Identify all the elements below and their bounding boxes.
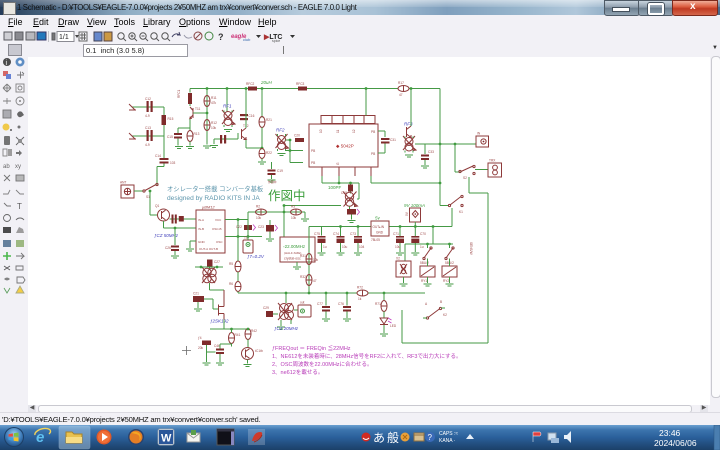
svg-text:OUT▸IN: OUT▸IN <box>373 225 385 229</box>
ground under R13 <box>186 147 194 149</box>
power connector J2 <box>405 208 421 227</box>
svg-text:R6: R6 <box>229 282 233 286</box>
svg-text:C13: C13 <box>145 126 151 130</box>
svg-text:C75: C75 <box>314 232 320 236</box>
svg-text:3、ne612を載せる。: 3、ne612を載せる。 <box>272 368 323 376</box>
red app <box>248 429 265 445</box>
wire: input stub upper <box>132 106 164 108</box>
capacitor C18 100PF <box>328 183 353 195</box>
inductor RFC1 (vertical from rail) <box>177 89 192 107</box>
wire: strip feed from rail <box>365 89 367 116</box>
wire: IC gnd pin <box>190 241 196 248</box>
junction bottom rail <box>308 292 311 295</box>
svg-text:C76: C76 <box>338 302 344 306</box>
svg-text:OSC-B: OSC-B <box>212 227 222 231</box>
wire: VCC top rail <box>190 88 440 90</box>
wire: IC right pin upper <box>378 131 385 137</box>
capacitor C25 <box>179 216 184 222</box>
wire: ANT pin <box>134 190 143 192</box>
svg-text:10k: 10k <box>313 258 319 262</box>
trimmer inductor L3 (oscillator tank) <box>343 192 358 210</box>
switch K1 <box>440 195 463 226</box>
svg-text:Q1: Q1 <box>155 204 159 208</box>
capacitor C21 <box>193 292 218 312</box>
svg-text:VCC: VCC <box>215 218 222 222</box>
resistor R15 <box>162 115 174 125</box>
wire: osc net R2/R3 <box>248 206 341 241</box>
capacitor C14 (series in vertical) <box>155 154 176 185</box>
svg-text:47k: 47k <box>211 101 217 105</box>
svg-text:C29: C29 <box>263 306 269 310</box>
wire: IC right pin lower <box>378 149 385 154</box>
svg-text:S2: S2 <box>463 176 467 180</box>
ground (antenna stub lower) <box>129 133 136 139</box>
firefox <box>128 429 144 445</box>
svg-text:spice: spice <box>272 39 280 43</box>
svg-text:C74: C74 <box>333 232 339 236</box>
svg-text:103: 103 <box>170 161 176 165</box>
svg-text:11: 11 <box>336 129 340 133</box>
svg-text:1u: 1u <box>420 245 424 249</box>
svg-text:IN-A: IN-A <box>198 218 204 222</box>
ground IC <box>186 249 194 251</box>
wire: IC bottom pins <box>322 167 371 176</box>
wire: rail corner down (right) <box>439 89 441 206</box>
svg-text:(HALF-SIZE): (HALF-SIZE) <box>284 251 301 255</box>
capacitor C77 <box>317 292 330 321</box>
mail <box>187 430 200 442</box>
resistor R41 <box>229 328 241 347</box>
svg-text:5v: 5v <box>375 216 381 221</box>
capacitor C16 (RF1 parallel) <box>240 114 255 120</box>
junction tank dots <box>200 266 203 269</box>
svg-text:C15: C15 <box>167 135 173 139</box>
capacitor C70 <box>411 225 426 255</box>
wire: T15 collector to rail <box>410 89 412 127</box>
capacitor C71 <box>393 225 404 255</box>
svg-text:crystal-osc: crystal-osc <box>284 257 301 261</box>
junction VCC net dots <box>237 218 240 221</box>
inductor RFC2 <box>246 82 257 91</box>
junction T12 collector <box>245 87 248 90</box>
svg-text:R13: R13 <box>194 132 200 136</box>
svg-text:R11: R11 <box>211 96 217 100</box>
LED D1 <box>380 318 397 336</box>
junction dots <box>206 112 209 115</box>
svg-text:GND: GND <box>198 240 206 244</box>
connector ANT <box>120 181 134 199</box>
svg-text:GND: GND <box>376 231 384 235</box>
capacitor C17b (base coupling) <box>210 133 238 148</box>
switch K2 <box>423 300 447 319</box>
svg-text:作図中: 作図中 <box>268 188 306 203</box>
transistor Q3 <box>242 348 264 367</box>
wire: Q1 bottom to IN-B <box>164 221 197 228</box>
svg-text:IN: IN <box>477 132 481 136</box>
ground under RF2 <box>278 154 286 156</box>
svg-text:C73: C73 <box>350 232 356 236</box>
transistor T12 <box>242 124 249 140</box>
ground (antenna stub upper) <box>129 104 136 110</box>
capacitor C20 (mixer input) <box>294 134 304 143</box>
ground under R22 <box>258 162 266 164</box>
toolbars <box>0 29 720 44</box>
resistor R72 (series) <box>357 286 368 302</box>
wire: tank top <box>195 267 224 290</box>
svg-text:RF3: RF3 <box>404 122 413 127</box>
svg-text:R12: R12 <box>211 121 217 125</box>
switch S1 <box>143 183 158 199</box>
svg-text:RF1: RF1 <box>223 104 232 109</box>
svg-text:R31: R31 <box>300 254 306 258</box>
trimmer transformer RF1 <box>222 104 235 128</box>
svg-text:SENS/W: SENS/W <box>469 242 473 255</box>
pin header strip J1 <box>321 116 375 124</box>
capacitor C15 (emitter bypass) <box>167 133 182 146</box>
wire: crystal gnd <box>296 262 298 266</box>
svg-text:R3: R3 <box>291 205 295 209</box>
wire: loop top <box>469 177 488 193</box>
capacitor C29 <box>263 306 278 317</box>
svg-text:LED: LED <box>390 324 397 328</box>
connector TRX <box>488 159 502 178</box>
wire: T11 base to divider <box>193 112 207 114</box>
svg-text:9V 100mA: 9V 100mA <box>404 203 425 208</box>
capacitor C12 <box>145 97 153 118</box>
svg-text:あ: あ <box>373 431 385 445</box>
svg-text:TRX: TRX <box>489 159 496 163</box>
IC U1 (mixer NE612) <box>196 205 225 254</box>
svg-text:xy: xy <box>15 164 21 170</box>
folder <box>66 432 82 443</box>
wire: input stub lower <box>132 135 164 137</box>
svg-text:RF2: RF2 <box>276 128 285 133</box>
ground under R19 <box>348 221 356 223</box>
svg-text:IN-B: IN-B <box>198 227 204 231</box>
svg-text:PB: PB <box>371 152 375 156</box>
svg-text:23:46: 23:46 <box>659 428 681 438</box>
svg-text:R22: R22 <box>266 151 272 155</box>
wire: RF2 to mixer <box>286 140 304 163</box>
active window highlight cell <box>59 426 90 449</box>
trimmer transformer L4 <box>403 136 416 153</box>
crystal oscillator module X1 <box>280 237 315 262</box>
svg-text:R17: R17 <box>398 81 404 85</box>
wire: stage2 feed vertical <box>226 89 228 112</box>
start orb <box>4 427 24 447</box>
potentiometer R19 <box>347 209 360 220</box>
svg-text:club: club <box>243 37 251 42</box>
svg-text:CAPS :≈: CAPS :≈ <box>439 431 458 437</box>
wire: T12 collector to rail <box>245 89 247 129</box>
output transformer L5 <box>277 292 298 329</box>
junction osc line <box>338 182 341 185</box>
capacitor C22 (electrolytic) <box>236 220 256 241</box>
svg-text:4-9: 4-9 <box>145 143 150 147</box>
junction strip feed <box>365 87 368 90</box>
svg-text:般: 般 <box>387 430 399 445</box>
transistor T15 <box>404 122 413 138</box>
svg-text:1u: 1u <box>323 245 327 249</box>
svg-text:ƒ7=0.2V: ƒ7=0.2V <box>247 254 265 259</box>
svg-text:R71: R71 <box>375 302 381 306</box>
svg-text:10: 10 <box>319 129 323 133</box>
svg-text:K1: K1 <box>459 210 463 214</box>
svg-text:R5: R5 <box>229 262 233 266</box>
switch S3 <box>420 247 432 265</box>
switch S4 <box>445 247 454 265</box>
ground under L4 <box>405 155 413 157</box>
svg-text:G: G <box>336 162 340 165</box>
resistor R2 <box>256 205 267 221</box>
junction IN-B net <box>174 227 177 230</box>
svg-text:ab: ab <box>3 164 10 170</box>
JFET oscillator transformer L6 <box>202 267 216 283</box>
switch S2 (TRX select) <box>455 144 488 180</box>
junction output line <box>439 143 442 146</box>
wire: oscillator collector line <box>322 176 359 199</box>
svg-text:C71: C71 <box>393 232 399 236</box>
junction relay feed dots <box>432 225 435 228</box>
svg-text:オシレーター搭載 コンバータ基板: オシレーター搭載 コンバータ基板 <box>167 184 264 193</box>
JFET Q2 2SK192 <box>210 290 229 324</box>
svg-text:PB: PB <box>311 161 315 165</box>
svg-text:4-9: 4-9 <box>145 114 150 118</box>
svg-text:C21: C21 <box>193 292 199 296</box>
svg-text:?: ? <box>218 32 224 42</box>
svg-text:C70: C70 <box>420 232 426 236</box>
svg-text:9V: 9V <box>405 211 409 216</box>
wire: filter vertical <box>163 107 165 158</box>
svg-text:C77: C77 <box>317 302 323 306</box>
wire: pin4 line to switch K1 <box>371 176 440 183</box>
capacitor C24 <box>172 215 177 224</box>
svg-text:R72: R72 <box>357 286 363 290</box>
tray icons <box>362 433 371 442</box>
test point TP7 <box>243 236 253 253</box>
svg-text:1k: 1k <box>358 297 362 301</box>
svg-text:RFC1: RFC1 <box>177 89 181 98</box>
svg-text:2024/06/06: 2024/06/06 <box>654 438 697 448</box>
svg-text:12: 12 <box>352 129 356 133</box>
wire: outer loop <box>402 193 488 343</box>
svg-text:R2: R2 <box>256 205 260 209</box>
svg-text:C4b: C4b <box>214 344 220 348</box>
resistor R71 + LED D1 <box>375 292 387 318</box>
capacitor C33 <box>421 144 434 168</box>
capacitor C13 <box>145 126 153 147</box>
svg-text:R21: R21 <box>266 118 272 122</box>
capacitor C75 <box>314 227 327 256</box>
resistor divider chain (TP branch) <box>229 237 241 282</box>
relay RY2 <box>442 259 457 287</box>
svg-text:◦22.00MHz: ◦22.00MHz <box>283 244 306 249</box>
svg-text:RY2: RY2 <box>443 279 449 283</box>
svg-text:ƒCZ 20MHz: ƒCZ 20MHz <box>274 326 299 331</box>
connector IN <box>476 132 489 148</box>
op-amp/mixer IC U2 5042P <box>309 124 378 167</box>
svg-text:78L05: 78L05 <box>371 238 380 242</box>
svg-text:PB: PB <box>311 149 315 153</box>
capacitor C31 <box>381 138 396 149</box>
svg-text:100PF: 100PF <box>328 185 342 190</box>
svg-text:C23: C23 <box>258 225 264 229</box>
junction T15 collector <box>410 87 413 90</box>
wire: Q1 out to mixer <box>170 218 197 220</box>
svg-text:10u: 10u <box>395 245 401 249</box>
svg-text:20k: 20k <box>198 346 204 350</box>
svg-text:10k: 10k <box>211 126 217 130</box>
transistor Q1 (local osc) <box>155 204 170 221</box>
capacitor C27 (tank) <box>207 260 220 267</box>
wire: T12 emitter node <box>246 140 262 148</box>
svg-text:◆ 5042P: ◆ 5042P <box>336 144 354 149</box>
junction dots on VCC rail <box>226 87 229 90</box>
wire: output line to IN jack <box>415 143 476 145</box>
svg-text:R41: R41 <box>235 333 241 337</box>
capacitor C74 <box>333 225 348 255</box>
origin cross <box>182 346 191 355</box>
resistor R17 (series in rail) <box>398 81 409 97</box>
resistor R22 (emitter) <box>259 149 272 162</box>
svg-text:R42: R42 <box>251 329 257 333</box>
svg-text:C14: C14 <box>155 154 161 158</box>
svg-text:20uH: 20uH <box>260 80 273 85</box>
svg-text:ƒFREQout ＝ FREQin ≦22MHz: ƒFREQout ＝ FREQin ≦22MHz <box>272 344 351 352</box>
media player <box>97 430 112 445</box>
wire: T11 emitter branch <box>178 89 207 145</box>
svg-text:1、NE612を未装着時に、28MHz信号をRF2に入れて、: 1、NE612を未装着時に、28MHz信号をRF2に入れて、RF3で出力大にする… <box>272 352 462 360</box>
svg-text:X2: X2 <box>396 257 400 261</box>
wire: left feed vertical <box>308 227 310 294</box>
svg-text:KANA ·: KANA · <box>439 438 456 444</box>
ground under R12 <box>203 146 211 148</box>
capacitor C23 (electrolytic) <box>258 220 278 241</box>
svg-text:C31: C31 <box>390 138 396 142</box>
resistor R32 <box>300 275 317 286</box>
junction mixer input <box>289 139 292 142</box>
svg-text:?: ? <box>428 433 433 442</box>
svg-text:μBM12: μBM12 <box>201 205 215 210</box>
scrollbars <box>710 44 720 405</box>
connector OUT <box>298 301 311 318</box>
svg-text:C12: C12 <box>145 97 151 101</box>
svg-text:C16: C16 <box>249 114 255 118</box>
taskbar <box>0 425 720 450</box>
svg-text:W: W <box>161 433 172 445</box>
capacitor C4b <box>214 344 232 365</box>
left tool palette <box>0 57 29 405</box>
svg-text:PB: PB <box>371 130 375 134</box>
svg-text:ANT: ANT <box>120 181 126 185</box>
capacitor C76 <box>338 292 351 321</box>
svg-text:RY1: RY1 <box>421 279 427 283</box>
resistor R4 <box>198 336 216 365</box>
wire: source node <box>210 320 248 330</box>
svg-text:C26: C26 <box>165 246 171 250</box>
svg-text:C22: C22 <box>236 225 242 229</box>
IE <box>34 428 50 446</box>
ground under RF1 <box>224 130 232 132</box>
capacitor C26 <box>165 228 179 258</box>
transistor T11 <box>190 107 200 119</box>
canvas <box>28 57 710 405</box>
menu bar <box>0 15 720 30</box>
svg-text:A: A <box>425 302 428 306</box>
capacitor C73 <box>350 225 365 255</box>
wire: bottom rail <box>238 292 425 294</box>
word <box>158 429 174 445</box>
relay RY1 <box>420 259 435 287</box>
resistor R11 <box>204 96 217 107</box>
svg-text:out: out <box>300 301 305 305</box>
svg-text:T11: T11 <box>195 107 200 111</box>
status bar <box>0 412 720 426</box>
resistor R13 (emitter) <box>187 131 200 146</box>
svg-text:RFC2: RFC2 <box>246 82 255 86</box>
svg-text:104: 104 <box>359 245 365 249</box>
wire: 5V rail <box>309 226 452 228</box>
svg-text:47: 47 <box>399 93 403 97</box>
svg-text:R32: R32 <box>300 275 306 279</box>
svg-text:C20: C20 <box>294 134 300 138</box>
resistor R31 <box>300 254 319 265</box>
svg-text:K2: K2 <box>443 313 447 317</box>
resistor R42 <box>245 328 257 348</box>
junction osc net <box>283 211 286 214</box>
resistor R3 <box>291 205 302 221</box>
voltage regulator IC3 <box>371 216 389 243</box>
svg-text:ℓC1ℓb: ℓC1ℓb <box>255 349 263 353</box>
svg-text:B: B <box>440 300 442 304</box>
trimmer transformer RF2 <box>276 128 289 152</box>
svg-text:designed by RADIO KITS IN JA: designed by RADIO KITS IN JA <box>167 195 260 202</box>
svg-text:10u: 10u <box>342 245 348 249</box>
black app <box>217 429 234 445</box>
inductor RFC3 <box>296 82 307 91</box>
wire: relay feed <box>405 227 453 262</box>
svg-text:作図中: 作図中 <box>268 180 277 184</box>
wire: to mixer osc input <box>150 191 158 215</box>
svg-text:R15: R15 <box>168 117 174 121</box>
svg-text:RFC3: RFC3 <box>296 82 305 86</box>
resistor R12 <box>204 120 217 131</box>
svg-text:1/1: 1/1 <box>59 34 69 41</box>
svg-text:C33: C33 <box>428 150 434 154</box>
svg-text:10k: 10k <box>256 216 262 220</box>
svg-text:T: T <box>17 202 22 211</box>
resistor R21 (bias) <box>259 89 272 149</box>
svg-text:OSC: OSC <box>216 240 223 244</box>
junction ANT net <box>149 190 152 193</box>
svg-text:C19: C19 <box>277 169 283 173</box>
junction T12 emitter <box>261 147 264 150</box>
connector X2 <box>396 257 411 287</box>
svg-text:C27: C27 <box>214 260 220 264</box>
ground under R3 <box>301 219 309 221</box>
capacitor C19 <box>268 162 284 182</box>
svg-text:ƒ2SK192: ƒ2SK192 <box>210 319 229 324</box>
wire: VCC stub <box>225 220 262 237</box>
svg-text:2、OSC周波数を22.00MHzに合わせる。: 2、OSC周波数を22.00MHzに合わせる。 <box>272 360 373 368</box>
svg-text:47: 47 <box>313 279 317 283</box>
resistor R6 <box>229 282 241 294</box>
svg-text:10k: 10k <box>291 216 297 220</box>
ground under C15 <box>175 147 183 149</box>
svg-text:OUT-A OUT-B: OUT-A OUT-B <box>199 247 218 251</box>
svg-text:ƒ4: ƒ4 <box>198 336 202 340</box>
window buttons <box>604 0 640 16</box>
